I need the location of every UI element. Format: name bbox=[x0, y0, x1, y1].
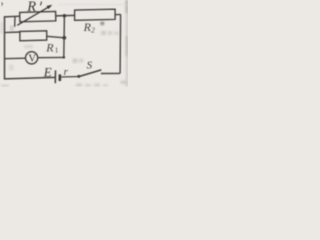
voltmeter body bbox=[26, 52, 38, 64]
svg-text:2: 2 bbox=[91, 27, 95, 35]
junction node top bbox=[63, 14, 67, 18]
battery short plate bbox=[58, 74, 61, 81]
faint bleed-through smudges bbox=[1, 0, 129, 87]
svg-text:1: 1 bbox=[55, 46, 59, 54]
rheostat arrow bbox=[17, 7, 49, 26]
junction node mid bbox=[62, 36, 66, 40]
wire: R2 to top-right corner bbox=[115, 13, 121, 15]
resistor R2 body bbox=[75, 9, 116, 20]
svg-text:S: S bbox=[87, 60, 93, 72]
rheostat R' body bbox=[20, 12, 56, 22]
wire: battery to switch bbox=[61, 76, 79, 79]
wire: bottom-right to switch bbox=[101, 72, 120, 74]
faint chars above switch bbox=[73, 59, 78, 64]
wire: right rail bbox=[119, 14, 122, 73]
faint char row top right bbox=[101, 31, 106, 35]
wire: vertical stub top bbox=[14, 16, 16, 26]
faint bottom row bbox=[76, 84, 82, 87]
svg-text:R: R bbox=[83, 20, 92, 34]
svg-text:r: r bbox=[64, 66, 69, 78]
junction node bottom bbox=[63, 56, 66, 59]
wire: R1 stub from rail bbox=[5, 31, 21, 34]
wire: bottom-left bbox=[4, 77, 55, 79]
wire: vertical column bbox=[63, 16, 66, 58]
right edge dark streak bbox=[126, 0, 128, 87]
switch contact node bbox=[77, 75, 80, 78]
wire: left rail bbox=[4, 16, 6, 79]
svg-text:R: R bbox=[26, 0, 36, 15]
ink comma top-left bbox=[1, 2, 3, 6]
switch S blade bbox=[79, 70, 102, 77]
battery long plate bbox=[54, 70, 56, 83]
wire: voltmeter left bbox=[5, 57, 26, 60]
wire: top-left from rail to rheostat bbox=[4, 15, 20, 18]
paper background bbox=[0, 0, 128, 87]
svg-text:V: V bbox=[28, 54, 36, 65]
wire: R1 to mid junction bbox=[47, 36, 65, 38]
resistor R1 body bbox=[20, 31, 47, 41]
wire: voltmeter right bbox=[38, 56, 64, 58]
dark spot under R2 right bbox=[101, 22, 104, 25]
wire: rheostat to top junction to R2 bbox=[56, 14, 75, 17]
faint line along top bbox=[58, 3, 128, 6]
faint marks left side bbox=[10, 26, 14, 32]
svg-text:R: R bbox=[45, 41, 54, 55]
